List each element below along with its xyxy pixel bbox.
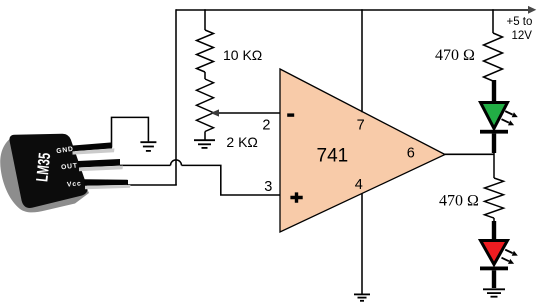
LED D2 red xyxy=(480,221,518,288)
svg-text:7: 7 xyxy=(357,117,365,133)
svg-text:2: 2 xyxy=(262,118,270,134)
resistor 470 Ohm bottom xyxy=(485,178,504,218)
wire: GND lead up and over xyxy=(112,117,149,147)
black face xyxy=(9,134,87,208)
plus input sign xyxy=(290,192,302,202)
wire hop over Vcc wire xyxy=(171,160,182,166)
triangle xyxy=(481,103,508,129)
svg-text:3: 3 xyxy=(264,179,272,195)
wire: +V top rail xyxy=(176,9,530,11)
triangle xyxy=(481,241,508,265)
resistor 470 Ohm top xyxy=(484,33,503,81)
cathode lead xyxy=(492,270,496,288)
wire: hop to pin3 corner xyxy=(182,165,281,195)
minus input sign xyxy=(287,113,294,116)
svg-text:470 Ω: 470 Ω xyxy=(435,47,475,64)
GND lead xyxy=(72,142,113,151)
light arrows xyxy=(505,250,512,254)
svg-text:LM35: LM35 xyxy=(33,152,54,183)
ground under red LED xyxy=(483,289,505,296)
op-amp U1 741 xyxy=(280,69,445,232)
wire: left vertical from rail to Vcc xyxy=(175,9,177,185)
anode lead xyxy=(492,221,496,241)
potentiometer 2 KOhm xyxy=(197,79,214,132)
wire: output to LED node xyxy=(444,153,495,155)
curved gray back xyxy=(0,135,89,212)
anode lead xyxy=(492,80,496,103)
light arrows xyxy=(505,111,512,115)
resistor 10 KOhm xyxy=(197,30,214,72)
wire: pot to ground xyxy=(204,132,206,141)
ground near LM35 xyxy=(140,142,156,151)
wiper arrow to pin 2 xyxy=(216,112,280,114)
svg-text:6: 6 xyxy=(407,145,415,161)
wire: Vcc lead to left vertical xyxy=(127,184,177,186)
svg-text:Vcc: Vcc xyxy=(67,180,82,188)
svg-text:741: 741 xyxy=(317,146,349,167)
wire: 10K to pot xyxy=(204,72,206,79)
Vcc lead xyxy=(85,179,129,186)
svg-text:+5 to: +5 to xyxy=(507,16,533,28)
ground under pot xyxy=(194,140,215,148)
wire: rail to top 470 xyxy=(492,9,494,33)
sensor LM35 package xyxy=(0,134,130,213)
cathode bar xyxy=(480,267,508,271)
cathode bar xyxy=(480,130,508,134)
wire: rail to 10K xyxy=(204,9,206,30)
pin 4 wire to ground xyxy=(361,194,363,295)
LED D1 green xyxy=(480,80,518,153)
svg-text:10 KΩ: 10 KΩ xyxy=(223,47,262,63)
svg-text:4: 4 xyxy=(355,177,363,193)
OUT lead xyxy=(78,159,120,168)
wire: node to lower 470 xyxy=(493,153,495,179)
svg-text:2 KΩ: 2 KΩ xyxy=(226,134,257,150)
wire: OUT lead to hop xyxy=(120,164,171,166)
supply arrow head xyxy=(528,6,536,14)
wire: 470 to red LED xyxy=(493,218,495,222)
pin 7 wire from rail xyxy=(361,9,363,112)
cathode lead xyxy=(492,134,496,153)
svg-text:470 Ω: 470 Ω xyxy=(439,192,479,209)
ground under op-amp xyxy=(354,294,370,300)
svg-text:12V: 12V xyxy=(512,30,533,42)
